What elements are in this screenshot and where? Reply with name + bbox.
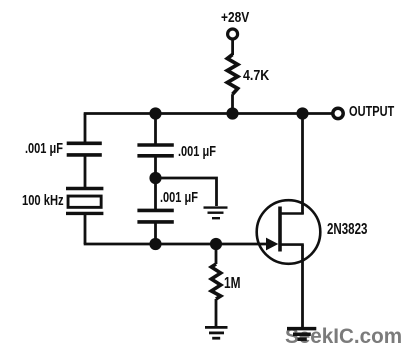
- wire C1 to crystal: [84, 155, 87, 190]
- ground G1: [204, 208, 228, 219]
- node junction dot bottom 1M: [210, 238, 222, 250]
- crystal Y1 100kHz: [66, 189, 103, 214]
- resistor R1 4.7K: [227, 55, 237, 95]
- ground G2: [205, 327, 228, 338]
- terminal +28V: [228, 29, 238, 39]
- wire mid node to ground: [156, 178, 217, 206]
- transistor Q1 2N3823: [257, 200, 321, 264]
- label C2 value .001 uF: [178, 145, 216, 159]
- label C1 value .001 uF: [25, 142, 63, 156]
- node junction dot top center: [149, 107, 161, 119]
- wire output stub: [303, 112, 334, 115]
- capacitor C3 .001uF: [137, 210, 173, 222]
- wire resistor to top bus: [231, 94, 234, 113]
- label OUTPUT: [349, 105, 394, 119]
- ground G3: [287, 329, 316, 340]
- label transistor type 2N3823: [327, 222, 367, 237]
- label crystal value 100 kHz: [22, 193, 64, 208]
- node junction dot output/drain: [296, 107, 308, 119]
- capacitor C2 .001uF: [137, 145, 173, 156]
- label C3 value .001 uF: [160, 191, 198, 205]
- label resistor value 4.7K: [243, 68, 269, 83]
- watermark SeekIC.com: [285, 326, 402, 347]
- wire bus to 1M: [215, 244, 218, 264]
- wire C2 to C3: [154, 156, 157, 211]
- wire 1M to ground: [215, 299, 218, 326]
- node junction dot top resistor: [226, 107, 238, 119]
- wire C3 to bottom bus: [154, 222, 157, 244]
- wire bottom bus / gate line: [84, 243, 267, 246]
- label +28V supply: [221, 11, 249, 26]
- node junction dot bottom center: [149, 238, 161, 250]
- node junction dot mid center: [149, 172, 161, 184]
- wire left branch upper: [84, 114, 87, 146]
- wire top bus: [84, 112, 303, 115]
- wire center branch upper: [154, 114, 157, 147]
- terminal OUTPUT: [333, 108, 343, 118]
- wire crystal to bottom bus: [84, 213, 87, 244]
- wire drain from top bus: [301, 114, 304, 215]
- capacitor C1 .001uF: [67, 143, 102, 155]
- wire supply to resistor: [231, 39, 234, 55]
- label resistor value 1M: [224, 276, 240, 291]
- resistor R2 1M: [211, 264, 220, 299]
- wire source to ground: [301, 245, 304, 327]
